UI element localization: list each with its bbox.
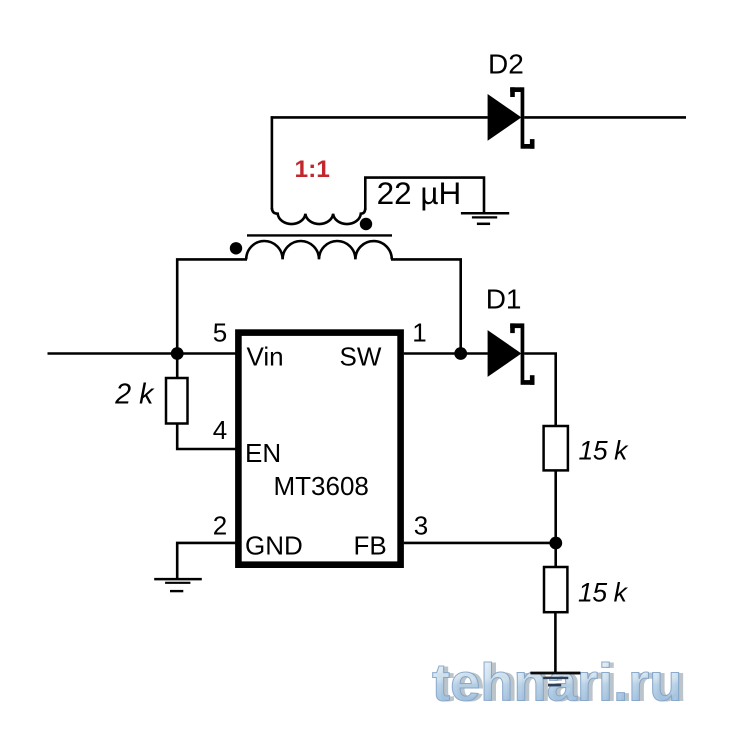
svg-text:GND: GND — [245, 530, 303, 560]
svg-text:22 µH: 22 µH — [377, 175, 462, 211]
ground (secondary side) — [461, 213, 509, 224]
resistor R1 2k — [166, 378, 188, 424]
wire: R1 bottom lead to EN — [177, 423, 236, 449]
wire: SW to D1 — [404, 352, 488, 355]
resistor R3 15k — [544, 567, 567, 612]
diode D2 (Schottky) — [488, 87, 535, 148]
wire: R1 top lead — [176, 354, 179, 380]
junction: input node — [171, 347, 184, 360]
wire: output rail right segment — [524, 116, 686, 119]
svg-text:tehnari.ru: tehnari.ru — [432, 654, 683, 713]
wire: GND pin to ground — [177, 543, 236, 579]
junction: FB node — [549, 537, 562, 550]
transformer secondary winding — [272, 208, 365, 224]
wire: R2 to R3 — [554, 470, 557, 567]
svg-text:15 k: 15 k — [578, 578, 629, 608]
resistor R2 15k — [544, 426, 568, 470]
transformer primary winding — [246, 241, 392, 259]
svg-text:2 k: 2 k — [114, 378, 155, 410]
wire: D1 cathode to R2 — [524, 354, 556, 427]
svg-text:1: 1 — [412, 318, 426, 348]
svg-text:EN: EN — [245, 438, 281, 468]
ground (IC) — [154, 579, 202, 591]
wire: input to Vin — [48, 352, 237, 355]
transformer core — [247, 234, 392, 236]
IC U1 MT3608 — [238, 333, 400, 565]
diode D1 (Schottky) — [488, 323, 535, 384]
svg-text:15 k: 15 k — [579, 435, 630, 465]
wire: secondary lead to 22µH box top and down to ground — [365, 178, 484, 213]
svg-text:SW: SW — [340, 342, 382, 372]
svg-text:D1: D1 — [486, 283, 522, 314]
wire: primary left lead — [177, 259, 247, 353]
svg-text:4: 4 — [213, 415, 227, 445]
svg-text:FB: FB — [354, 530, 387, 560]
svg-text:1:1: 1:1 — [295, 156, 330, 183]
polarity dot (secondary) — [360, 218, 372, 230]
polarity dot (primary) — [230, 242, 242, 254]
junction: SW node — [454, 347, 467, 360]
svg-text:D2: D2 — [488, 48, 524, 79]
svg-text:Vin: Vin — [247, 342, 284, 372]
wire: FB to divider — [404, 542, 556, 545]
ground (output divider) lines seen through watermark — [530, 673, 580, 685]
svg-text:3: 3 — [414, 511, 428, 541]
ground (output divider) — [530, 673, 580, 685]
svg-text:5: 5 — [213, 318, 227, 348]
wire: primary right lead — [391, 259, 461, 353]
wire: rail down to transformer secondary — [271, 116, 274, 209]
wire: output rail left segment — [271, 116, 488, 119]
watermark tehnari.ru — [432, 654, 687, 713]
wire: R3 to ground — [554, 612, 557, 674]
svg-text:MT3608: MT3608 — [274, 471, 369, 501]
svg-text:2: 2 — [213, 511, 227, 541]
